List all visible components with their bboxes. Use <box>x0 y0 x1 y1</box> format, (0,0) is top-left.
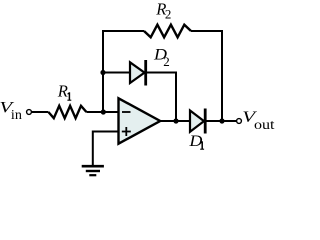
svg-text:out: out <box>254 117 275 132</box>
svg-text:2: 2 <box>165 6 172 21</box>
svg-text:R: R <box>57 81 68 100</box>
svg-text:D: D <box>188 133 203 150</box>
svg-text:2: 2 <box>163 54 170 69</box>
svg-text:in: in <box>11 107 22 122</box>
